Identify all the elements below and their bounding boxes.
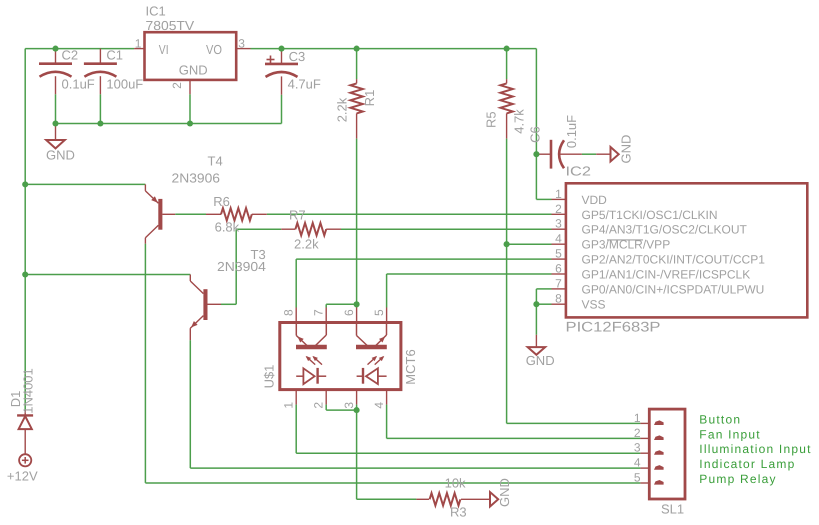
svg-text:8: 8 [281, 309, 295, 316]
svg-text:C6: C6 [527, 126, 542, 143]
svg-text:5: 5 [634, 471, 641, 485]
svg-text:GP1/AN1/CIN-/VREF/ICSPCLK: GP1/AN1/CIN-/VREF/ICSPCLK [582, 268, 751, 282]
svg-text:GND: GND [618, 135, 633, 164]
svg-text:VSS: VSS [582, 298, 606, 312]
svg-text:6: 6 [555, 262, 562, 276]
svg-text:Pump Relay: Pump Relay [699, 472, 776, 486]
svg-text:2: 2 [312, 402, 326, 409]
svg-text:1N4001: 1N4001 [21, 368, 36, 414]
svg-text:7: 7 [555, 276, 562, 290]
svg-text:6: 6 [342, 309, 356, 316]
svg-text:2N3906: 2N3906 [172, 170, 221, 185]
svg-text:7805TV: 7805TV [146, 18, 195, 33]
svg-text:GND: GND [46, 148, 75, 163]
svg-text:C3: C3 [289, 49, 306, 64]
svg-text:GND: GND [526, 353, 555, 368]
svg-text:2.2k: 2.2k [294, 237, 319, 252]
svg-text:2N3904: 2N3904 [217, 259, 266, 274]
svg-text:10k: 10k [445, 475, 466, 490]
svg-text:Indicator Lamp: Indicator Lamp [699, 457, 795, 471]
svg-text:T4: T4 [208, 154, 223, 169]
svg-text:2: 2 [634, 426, 641, 440]
svg-text:1: 1 [282, 402, 296, 409]
svg-text:2: 2 [555, 202, 562, 216]
svg-text:R1: R1 [362, 90, 377, 107]
svg-text:4: 4 [555, 232, 562, 246]
svg-text:2: 2 [170, 82, 184, 89]
svg-text:5: 5 [372, 309, 386, 316]
svg-text:IC2: IC2 [566, 164, 592, 179]
svg-text:IC1: IC1 [146, 4, 166, 19]
svg-text:6.8k: 6.8k [215, 220, 240, 235]
svg-text:4: 4 [372, 402, 386, 409]
svg-text:0.1uF: 0.1uF [564, 115, 579, 148]
svg-text:7: 7 [311, 309, 325, 316]
svg-text:4: 4 [634, 456, 641, 470]
svg-text:Button: Button [699, 412, 741, 426]
svg-text:3: 3 [238, 36, 245, 50]
svg-text:Fan Input: Fan Input [699, 427, 761, 441]
svg-text:3: 3 [634, 441, 641, 455]
svg-text:C2: C2 [62, 48, 79, 63]
svg-text:PIC12F683P: PIC12F683P [566, 319, 661, 335]
svg-text:U$1: U$1 [262, 365, 277, 389]
svg-text:3: 3 [342, 402, 356, 409]
svg-text:+12V: +12V [7, 469, 38, 484]
svg-text:4.7k: 4.7k [511, 109, 526, 134]
svg-text:VDD: VDD [582, 193, 608, 207]
svg-text:R5: R5 [484, 111, 499, 128]
svg-text:GP5/T1CKI/OSC1/CLKIN: GP5/T1CKI/OSC1/CLKIN [582, 208, 718, 222]
svg-text:4.7uF: 4.7uF [288, 76, 321, 91]
svg-text:R3: R3 [450, 505, 467, 520]
svg-text:GND: GND [497, 478, 512, 507]
svg-text:0.1uF: 0.1uF [62, 76, 95, 91]
svg-text:3: 3 [555, 217, 562, 231]
svg-text:5: 5 [555, 247, 562, 261]
svg-text:GND: GND [179, 63, 208, 78]
svg-text:1: 1 [555, 187, 562, 201]
svg-text:MCT6: MCT6 [403, 349, 418, 384]
svg-text:GP2/AN2/T0CKI/INT/COUT/CCP1: GP2/AN2/T0CKI/INT/COUT/CCP1 [582, 253, 766, 267]
svg-text:1: 1 [135, 36, 142, 50]
svg-text:R7: R7 [289, 208, 306, 223]
svg-text:R6: R6 [213, 194, 230, 209]
svg-text:100uF: 100uF [106, 76, 143, 91]
svg-text:C1: C1 [106, 48, 123, 63]
svg-text:VI: VI [159, 42, 169, 57]
svg-text:GP4/AN3/T1G/OSC2/CLKOUT: GP4/AN3/T1G/OSC2/CLKOUT [582, 223, 748, 237]
svg-text:1: 1 [634, 411, 641, 425]
svg-text:SL1: SL1 [661, 501, 684, 516]
svg-text:8: 8 [555, 292, 562, 306]
svg-text:Illumination Input: Illumination Input [699, 442, 811, 456]
svg-text:2.2k: 2.2k [335, 97, 350, 122]
svg-text:VO: VO [206, 42, 222, 57]
svg-text:GP0/AN0/CIN+/ICSPDAT/ULPWU: GP0/AN0/CIN+/ICSPDAT/ULPWU [582, 282, 765, 296]
